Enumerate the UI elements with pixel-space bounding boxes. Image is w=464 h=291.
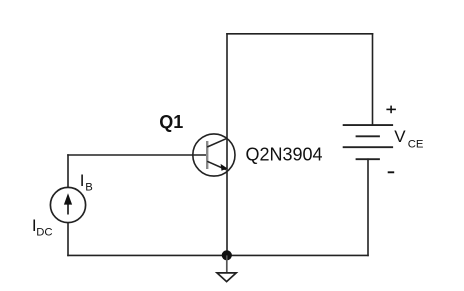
svg-text:B: B <box>85 182 93 194</box>
svg-text:CE: CE <box>408 138 424 150</box>
label VCE <box>394 127 424 150</box>
wire right vertical to battery + terminal <box>372 34 374 125</box>
wire collector vertical (top rail to transistor, through to emitter and bottom rail) <box>226 34 228 256</box>
svg-text:V: V <box>394 127 406 146</box>
transistor Q1 body circle <box>193 134 235 176</box>
svg-text:Q1: Q1 <box>159 112 183 132</box>
wire base horizontal <box>67 155 69 188</box>
svg-text:DC: DC <box>36 226 52 238</box>
ground <box>217 255 236 281</box>
transistor Q1 base bar <box>206 141 208 169</box>
svg-text:I: I <box>80 171 85 190</box>
wire top rail <box>227 33 373 35</box>
transistor Q1 emitter diagonal with arrow <box>207 161 227 171</box>
wire current source top to base corner <box>67 223 69 255</box>
svg-text:Q2N3904: Q2N3904 <box>246 145 323 165</box>
battery + sign <box>386 106 396 114</box>
wire bottom rail <box>68 254 368 256</box>
transistor Q1 collector diagonal <box>207 138 227 147</box>
label IDC <box>32 216 53 238</box>
current source IDC <box>50 187 85 222</box>
wire battery - terminal down to bottom rail <box>367 159 369 255</box>
battery VCE <box>343 125 393 159</box>
battery - sign <box>388 171 395 173</box>
junction dot node E/ground <box>222 250 232 260</box>
label IB <box>80 171 93 194</box>
